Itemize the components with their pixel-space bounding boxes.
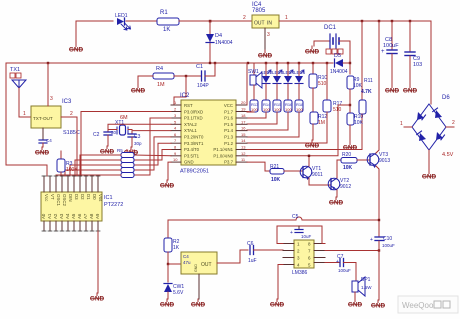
svg-text:OSC2: OSC2 [62, 194, 67, 207]
svg-text:2: 2 [174, 107, 177, 112]
svg-text:IC2: IC2 [180, 93, 190, 99]
resistor R17 column [247, 63, 342, 143]
ground (IC2 GND) [160, 180, 175, 190]
svg-text:7: 7 [174, 138, 177, 143]
wire R7 left [65, 170, 121, 176]
wire VCC pin20 to rail [246, 63, 248, 105]
svg-text:104P: 104P [197, 83, 209, 89]
resistor R15 [273, 100, 281, 112]
node junction [167, 263, 169, 265]
receiver module IC3 [31, 99, 80, 136]
diode D4 [206, 33, 233, 46]
svg-text:BP1: BP1 [361, 277, 371, 283]
svg-text:P1.3: P1.3 [224, 135, 233, 140]
svg-text:P3.1/TXD: P3.1/TXD [184, 116, 203, 121]
resistor R12 [310, 112, 327, 140]
ground (R12) [305, 140, 320, 150]
wire antenna to IC3 [19, 116, 31, 118]
wire pin13 to R11 [247, 149, 362, 151]
svg-text:IN: IN [267, 21, 272, 27]
wire +5V rail [6, 62, 333, 64]
svg-text:+: + [336, 259, 339, 265]
bridge rectifier D6 [400, 95, 455, 171]
svg-text:IC3: IC3 [62, 99, 72, 105]
wire pin4 to ground [278, 265, 283, 300]
svg-text:D2: D2 [80, 194, 85, 200]
speaker BP1 [352, 277, 372, 299]
svg-text:A8: A8 [89, 213, 94, 219]
capacitor C8 [381, 21, 399, 85]
svg-text:WeeQoo: WeeQoo [402, 301, 434, 310]
capacitor C1 [196, 63, 215, 89]
battery DC1 [324, 25, 350, 54]
capacitor C4 (IC3 bottom) [39, 128, 52, 147]
wire XTAL2 [108, 124, 171, 131]
svg-text:9012: 9012 [340, 184, 351, 190]
wire divider down [349, 125, 351, 142]
svg-text:13: 13 [241, 145, 246, 150]
wire T1 to R5a [134, 154, 171, 157]
capacitor C3 [128, 134, 142, 147]
svg-text:LM386: LM386 [292, 270, 308, 276]
IC1 bottom pin stubs [44, 221, 98, 231]
svg-text:4.5V: 4.5V [442, 152, 454, 158]
svg-text:P3.5/T1: P3.5/T1 [184, 153, 200, 158]
resistor labels row [251, 102, 304, 112]
svg-text:OUT: OUT [254, 21, 265, 27]
svg-text:A9: A9 [95, 213, 100, 219]
wire VT2 collector to R20 [337, 160, 341, 178]
svg-text:R5: R5 [117, 148, 123, 153]
node junction [209, 20, 212, 23]
resistor R8 [121, 168, 134, 173]
resistor R19 [121, 173, 134, 178]
svg-text:A5: A5 [71, 213, 76, 219]
wire IC3 top pin to rail [47, 63, 49, 106]
wire R6 left [70, 165, 121, 176]
LM386 pin stubs [283, 244, 325, 265]
ground (R4) [131, 85, 146, 95]
resistor R11 [359, 78, 373, 114]
capacitor C5 [290, 214, 312, 239]
wire R9 down [349, 89, 351, 113]
ground (CW1) [160, 299, 175, 309]
wire XTAL1 [132, 131, 171, 133]
svg-text:100: 100 [296, 107, 303, 112]
transistor VT1 9011 [300, 166, 323, 180]
wire hop [296, 217, 302, 220]
wire pin19 [247, 111, 254, 114]
svg-text:2: 2 [243, 15, 246, 21]
IC2 left pin numbers [173, 100, 178, 162]
ground (C8) [385, 85, 400, 95]
svg-text:19: 19 [241, 107, 246, 112]
svg-text:P1.5: P1.5 [224, 122, 233, 127]
wire [247, 112, 277, 124]
wire [247, 112, 288, 130]
svg-text:3: 3 [50, 96, 53, 102]
ground (divider bottom) [343, 142, 358, 152]
wire GND pin to ground [168, 162, 171, 180]
wire gain loop [277, 226, 325, 244]
svg-text:PT2272: PT2272 [104, 202, 123, 208]
svg-text:C5: C5 [292, 214, 299, 220]
svg-text:OUT: OUT [201, 262, 212, 268]
watermark [398, 296, 458, 313]
svg-text:A2: A2 [53, 213, 58, 219]
capacitor C10 [370, 236, 395, 300]
ground (C9) [403, 85, 418, 95]
svg-text:A4: A4 [65, 213, 70, 219]
wire IC5 gnd pin [198, 274, 200, 299]
svg-text:D6: D6 [442, 95, 450, 101]
svg-text:RST: RST [184, 103, 193, 108]
svg-text:10K: 10K [354, 120, 364, 126]
voice chip IC5 [181, 252, 217, 274]
resistor R10 (divider lower) [347, 113, 364, 126]
wire audio feed right [302, 219, 379, 221]
svg-text:1.5W: 1.5W [361, 285, 372, 290]
svg-text:10: 10 [173, 157, 178, 162]
svg-text:P1.4: P1.4 [224, 128, 233, 133]
ground (bridge) [422, 171, 437, 181]
wire IC3 out pin 2 [61, 117, 77, 176]
IC1 top pin stubs [44, 176, 98, 192]
wire R5a left [80, 155, 121, 176]
svg-text:17: 17 [241, 119, 246, 124]
LED LED4 column [283, 63, 295, 100]
wire TXD to R8 [134, 118, 171, 175]
svg-text:4.7K: 4.7K [361, 89, 372, 95]
resistor R10 column [309, 63, 327, 112]
wire VT1 collector [308, 156, 310, 166]
svg-text:1: 1 [174, 100, 177, 105]
svg-text:9011: 9011 [312, 172, 323, 178]
ground (IC5) [191, 299, 206, 309]
wire IC1 pin ground [97, 231, 99, 293]
resistor R5 [121, 153, 134, 158]
svg-text:A6: A6 [77, 213, 82, 219]
svg-text:10K: 10K [343, 165, 353, 171]
wire pin12 [247, 105, 350, 156]
wire down to R2 [167, 220, 169, 238]
wire RXD to IC3 out [81, 112, 171, 177]
resistor R14 [262, 100, 270, 112]
resistor R3 [57, 151, 78, 176]
svg-text:2: 2 [70, 111, 73, 117]
wire VT1 emitter to VT2 base [309, 178, 330, 185]
svg-text:2: 2 [452, 120, 455, 126]
svg-text:P3.2/INT0: P3.2/INT0 [184, 135, 204, 140]
svg-text:100uF: 100uF [382, 243, 395, 248]
ground (battery) [305, 46, 320, 56]
pin 3 wire [264, 28, 266, 50]
wire +V rail top [279, 20, 431, 22]
svg-text:R11: R11 [364, 78, 373, 84]
resistor R7 [121, 163, 134, 168]
ground (VT2) [329, 197, 344, 207]
svg-text:VCC: VCC [224, 103, 233, 108]
svg-text:P1.6: P1.6 [224, 116, 233, 121]
wire battery minus [314, 41, 327, 46]
resistor R2 [164, 238, 180, 264]
wire R11 down [361, 114, 363, 149]
antenna TX1 [10, 67, 26, 117]
svg-text:Vcc: Vcc [44, 194, 49, 202]
svg-text:XTAL1: XTAL1 [184, 128, 197, 133]
svg-text:R1: R1 [160, 10, 168, 16]
IC1 top pin ticks [42, 175, 100, 177]
wire to IC5 [168, 263, 181, 265]
svg-text:510: 510 [318, 81, 327, 87]
svg-text:SW1: SW1 [248, 69, 259, 75]
resistor R20 [341, 152, 369, 171]
wire rail to R11 [361, 21, 363, 100]
svg-text:D4: D4 [215, 33, 222, 39]
svg-text:1: 1 [285, 15, 288, 21]
svg-text:1M: 1M [318, 120, 325, 126]
svg-text:TX1: TX1 [10, 67, 20, 73]
IC2 right pin stubs [236, 105, 247, 162]
svg-text:P3.7: P3.7 [224, 160, 233, 165]
resistor R21 [270, 164, 302, 183]
svg-text:14: 14 [241, 138, 246, 143]
svg-text:+: + [370, 237, 373, 243]
wire pin11 to R21 [247, 162, 270, 171]
svg-text:P1.0/AIN0: P1.0/AIN0 [213, 153, 233, 158]
svg-text:P3.4/T0: P3.4/T0 [184, 147, 200, 152]
svg-text:510: 510 [333, 107, 342, 113]
wire rail right corner down [430, 21, 432, 104]
IC2 left pin stubs [171, 105, 181, 162]
svg-text:XTAL2: XTAL2 [184, 122, 197, 127]
svg-text:+: + [290, 230, 293, 236]
svg-text:C2: C2 [93, 132, 100, 138]
wire R8 left [56, 175, 121, 176]
wire [247, 112, 299, 137]
reset resistor R4 [138, 66, 201, 88]
svg-text:DC1: DC1 [324, 25, 337, 31]
capacitor C9 [405, 21, 422, 85]
ground (LED1 chain) [69, 44, 84, 54]
resistor R6 [121, 158, 134, 163]
svg-text:Vss: Vss [98, 194, 103, 202]
IC1 internal pin names (rotated) [41, 194, 103, 219]
svg-text:100uF: 100uF [338, 268, 351, 273]
svg-text:1N4004: 1N4004 [215, 40, 233, 46]
svg-text:10uF: 10uF [301, 234, 312, 239]
regulator IC4 7805 [252, 2, 279, 28]
transistor VT2 9012 [328, 178, 351, 190]
capacitor C7 [336, 254, 356, 281]
svg-text:TXT-OUT: TXT-OUT [33, 116, 53, 121]
svg-text:OSC1: OSC1 [56, 194, 61, 207]
svg-text:100: 100 [274, 107, 281, 112]
LED LED3 column [272, 63, 284, 100]
wire battery plus down [349, 41, 351, 74]
resistor R1 [157, 10, 179, 33]
svg-text:C1: C1 [196, 64, 203, 70]
capacitor C2 [93, 130, 117, 146]
wire [76, 21, 113, 44]
svg-text:1N4004: 1N4004 [330, 69, 348, 75]
svg-text:4: 4 [174, 126, 177, 131]
svg-text:7805: 7805 [252, 8, 266, 14]
svg-text:3: 3 [267, 32, 270, 38]
ground (LM386 pin4) [270, 299, 285, 309]
wire INT0 to R7 [134, 137, 171, 170]
IC1 bottom pin ticks [42, 230, 100, 232]
svg-text:10K: 10K [271, 177, 281, 183]
svg-text:47u: 47u [183, 260, 191, 265]
svg-text:1K: 1K [173, 245, 180, 251]
svg-text:6: 6 [174, 132, 177, 137]
wire pin5 to C7 [325, 262, 339, 264]
wire VT2 emitter [336, 190, 338, 197]
svg-text:10K: 10K [353, 83, 363, 89]
svg-text:20: 20 [241, 100, 246, 105]
node junctions on top rail [361, 20, 363, 22]
svg-text:100: 100 [285, 107, 292, 112]
switch SW1 column [248, 63, 262, 100]
ground (IC3) [35, 147, 50, 157]
resistor R16 [284, 100, 292, 112]
svg-text:100uF: 100uF [383, 43, 399, 49]
svg-text:5.1K: 5.1K [126, 148, 135, 153]
ground (C10) [371, 300, 386, 310]
svg-text:18: 18 [241, 113, 246, 118]
wire [209, 21, 211, 63]
svg-text:16: 16 [241, 126, 246, 131]
svg-text:1uF: 1uF [248, 258, 257, 264]
svg-text:9: 9 [174, 151, 177, 156]
LED LED2 column [261, 63, 273, 100]
svg-text:A7: A7 [83, 213, 88, 219]
LED LED5 column [294, 63, 306, 100]
svg-text:103: 103 [413, 62, 422, 68]
wire INT1 to R6 [134, 143, 171, 165]
svg-text:C4: C4 [183, 254, 189, 259]
capacitor C6 [247, 241, 283, 264]
svg-text:VT: VT [50, 194, 55, 200]
wire VT3 emitter down V+ audio [376, 166, 379, 236]
zener CW1 [164, 284, 184, 300]
wire T0 to R5 [134, 150, 171, 161]
wire VT3 collector to V+ [376, 21, 379, 153]
svg-text:P3.3/INT1: P3.3/INT1 [184, 141, 204, 146]
IC2 right pin numbers [241, 100, 246, 162]
svg-text:P1.1/AIN1: P1.1/AIN1 [213, 147, 233, 152]
svg-text:1: 1 [400, 121, 403, 127]
ground (IC1) [90, 293, 105, 303]
svg-text:5.6V: 5.6V [173, 290, 184, 296]
wire pin6 to V+ [325, 250, 379, 252]
svg-text:1M: 1M [157, 82, 165, 88]
svg-text:+: + [381, 49, 385, 55]
svg-text:GND: GND [184, 160, 194, 165]
node junction [185, 75, 187, 77]
amplifier U1 LM386 [292, 240, 314, 276]
svg-text:12: 12 [241, 151, 246, 156]
svg-text:1: 1 [23, 111, 26, 117]
MCU IC2 AT89C2051 [180, 93, 236, 175]
resistor R18 [295, 100, 303, 112]
wire left border to IC1 pin1 [6, 63, 47, 176]
wire [247, 112, 266, 118]
wire IC5 out [217, 250, 248, 263]
svg-text:D0: D0 [92, 194, 97, 200]
wire [179, 20, 252, 22]
node junctions on +5V rail [47, 62, 49, 64]
svg-text:15: 15 [241, 132, 246, 137]
wire [126, 20, 157, 22]
svg-text:8: 8 [174, 145, 177, 150]
svg-text:D5: D5 [334, 53, 341, 59]
svg-text:11: 11 [241, 157, 246, 162]
svg-text:GND: GND [194, 264, 198, 272]
wire [247, 111, 254, 113]
svg-text:30p: 30p [134, 141, 142, 146]
svg-text:A0: A0 [41, 213, 46, 219]
svg-text:100: 100 [263, 107, 270, 112]
svg-text:AT89C2051: AT89C2051 [180, 169, 209, 175]
svg-text:A3: A3 [59, 213, 64, 219]
diode D5 [330, 53, 350, 75]
wire RST net [174, 76, 186, 105]
svg-text:D3: D3 [74, 194, 79, 200]
svg-text:R4: R4 [156, 66, 163, 72]
svg-text:LED1: LED1 [115, 13, 128, 19]
ground (IC4 pin3) [258, 50, 273, 60]
resistor R9 [347, 76, 363, 89]
svg-text:A1: A1 [47, 213, 52, 219]
svg-text:5: 5 [174, 119, 177, 124]
crystal XT1 [108, 115, 132, 135]
svg-text:3: 3 [174, 113, 177, 118]
svg-text:P1.2: P1.2 [224, 141, 233, 146]
svg-text:100K: 100K [66, 167, 78, 173]
transistor VT3 9013 [367, 152, 390, 168]
decoder IC1 PT2272 [41, 192, 123, 221]
wire audio feed [168, 219, 296, 221]
svg-text:P1.7: P1.7 [224, 109, 233, 114]
svg-text:DIN: DIN [68, 194, 73, 202]
ground (C3) [124, 147, 139, 157]
svg-text:9013: 9013 [379, 158, 390, 164]
svg-text:P3.0/RXD: P3.0/RXD [184, 109, 203, 114]
LED LED1 [115, 13, 131, 30]
svg-text:1K: 1K [163, 27, 170, 33]
ground (BP1) [348, 299, 363, 309]
wire R5 left [75, 160, 121, 176]
svg-text:30: 30 [111, 130, 117, 135]
resistor R13 [250, 100, 258, 112]
ground (C2) [100, 146, 115, 156]
svg-text:100: 100 [251, 107, 258, 112]
svg-text:IC1: IC1 [104, 195, 113, 201]
svg-text:D1: D1 [86, 194, 91, 200]
wire to CW1 [167, 264, 169, 282]
